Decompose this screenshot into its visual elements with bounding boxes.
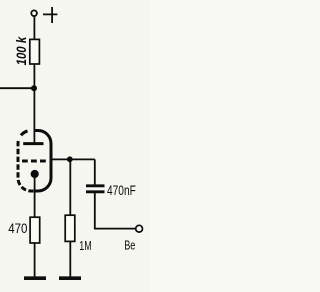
svg-text:1M: 1M [79, 238, 91, 253]
svg-text:470nF: 470nF [107, 182, 136, 198]
svg-text:470: 470 [8, 221, 27, 236]
svg-text:Be: Be [124, 238, 135, 253]
svg-text:100 k: 100 k [14, 36, 29, 66]
